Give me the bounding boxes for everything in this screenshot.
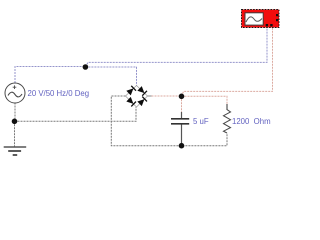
- oscilloscope right-edge dots: [276, 14, 278, 16]
- wire: source bottom to ground node: [14, 103, 16, 122]
- wire: node to resistor top: [182, 96, 228, 105]
- wire: ground node down to ground symbol: [14, 121, 16, 146]
- node junction dot B (DC+): [179, 94, 185, 100]
- wire: node to capacitor top: [181, 96, 183, 113]
- bridge rectifier diamond edges: [126, 86, 148, 108]
- oscilloscope terminals: [266, 24, 268, 26]
- svg-text:1200 Ohm: 1200 Ohm: [232, 117, 271, 126]
- node junction dot D (bottom rail): [179, 143, 185, 149]
- diode D4 (bottom-right, pointing to right vertex): [137, 97, 147, 107]
- wire: node to oscilloscope channel A: [85, 28, 267, 68]
- bridge right vertex stub: [148, 95, 152, 97]
- wire: bridge right vertex to node: [152, 95, 182, 97]
- diode D3 (bottom-left, pointing to bottom vertex): [126, 97, 136, 107]
- wire: ground node to bridge bottom vertex: [15, 107, 137, 121]
- AC source V1 circle: [5, 83, 25, 103]
- svg-text:20 V/50 Hz/0 Deg: 20 V/50 Hz/0 Deg: [28, 89, 90, 98]
- wire: source top vertical and horizontal to node: [15, 67, 85, 84]
- wire: node to oscilloscope channel B: [182, 28, 273, 97]
- svg-text:5 uF: 5 uF: [193, 117, 209, 126]
- wire: bridge left vertex around to bottom rail and resistor bottom: [111, 96, 227, 146]
- oscilloscope screen: [245, 13, 263, 25]
- oscilloscope XSC1 body: [242, 10, 280, 28]
- diode D2 (top-right, pointing to right vertex): [137, 86, 147, 96]
- wire: capacitor top lead: [181, 112, 183, 119]
- oscilloscope screen sine trace: [246, 17, 262, 22]
- wire: resistor top lead: [226, 104, 228, 110]
- wire: node to bridge top vertex: [85, 67, 136, 86]
- wire: capacitor bottom lead: [181, 124, 183, 146]
- ground symbol: [4, 147, 27, 155]
- node junction dot C (source bottom): [12, 119, 18, 125]
- node junction dot A (top): [83, 64, 89, 70]
- resistor R1 zigzag: [224, 110, 231, 133]
- diode D1 (top-left, pointing to top vertex): [126, 86, 136, 96]
- capacitor C1 plates: [171, 119, 189, 124]
